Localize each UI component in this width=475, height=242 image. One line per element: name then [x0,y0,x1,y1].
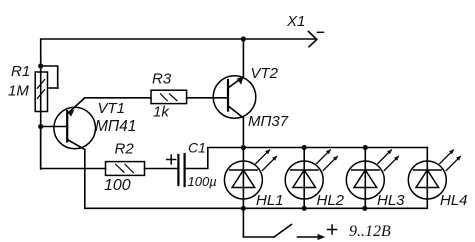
wire top rail from left corner to X1 [41,39,316,169]
svg-text:R1: R1 [11,63,30,80]
node VT1 base junction [38,124,43,129]
svg-text:C1: C1 [188,140,206,156]
C1 plus polarity [167,155,176,164]
X1 minus polarity mark [318,31,324,33]
power plus polarity [328,225,337,234]
node bottom rail HL2 [302,206,307,211]
node top rail HL3 [363,145,368,150]
svg-text:HL2: HL2 [317,192,345,209]
node VT2 emitter to X1 rail junction [241,36,246,41]
svg-text:1M: 1M [8,83,29,100]
wire trimmer tap of R1 [41,66,58,88]
LED HL2 [285,148,338,209]
resistor R2 [106,162,145,176]
resistor R3 [151,90,187,103]
node top rail HL2 [302,145,307,150]
wire power tap down [243,208,274,237]
wire VT1 emitter to R3 [85,97,151,99]
node bottom rail HL3 [362,206,367,211]
svg-text:VT2: VT2 [251,65,279,82]
svg-text:HL3: HL3 [377,192,405,209]
svg-text:VT1: VT1 [98,100,126,117]
wire VT1 base lead [41,126,67,128]
resistor R1 [35,72,47,112]
svg-text:100µ: 100µ [188,174,217,189]
wire R3 to VT2 base [187,97,227,99]
wire LED top rail [243,147,427,149]
wire VT2 emitter up [242,39,244,77]
node top rail HL1 [241,145,246,150]
svg-text:X1: X1 [286,13,305,30]
transistor VT2 [213,76,256,119]
LED HL1 [224,148,277,209]
svg-text:1k: 1k [153,104,170,121]
svg-text:R2: R2 [115,141,135,158]
svg-text:100: 100 [104,177,131,194]
connector power arrow [298,234,326,240]
svg-text:HL4: HL4 [440,192,468,209]
wire R2 to C1 [145,168,178,170]
svg-text:МП37: МП37 [248,113,289,130]
transistor VT1 [54,98,96,150]
switch blade [274,225,292,238]
svg-text:R3: R3 [152,71,172,88]
svg-text:9..12В: 9..12В [349,223,391,240]
wire VT2 collector down [242,118,244,148]
wire left rail down to R2 [41,127,106,169]
capacitor C1 [178,154,184,186]
node bottom rail HL1 [241,206,246,211]
wire C1 to LED rail [186,148,244,169]
wire VT1 collector down left side [85,150,428,209]
node R1 top junction [38,63,43,68]
svg-text:HL1: HL1 [256,192,284,209]
LED HL3 [346,148,399,209]
connector X1 arrowhead [309,32,317,47]
svg-text:МП41: МП41 [95,118,136,135]
LED HL4 [408,148,461,209]
